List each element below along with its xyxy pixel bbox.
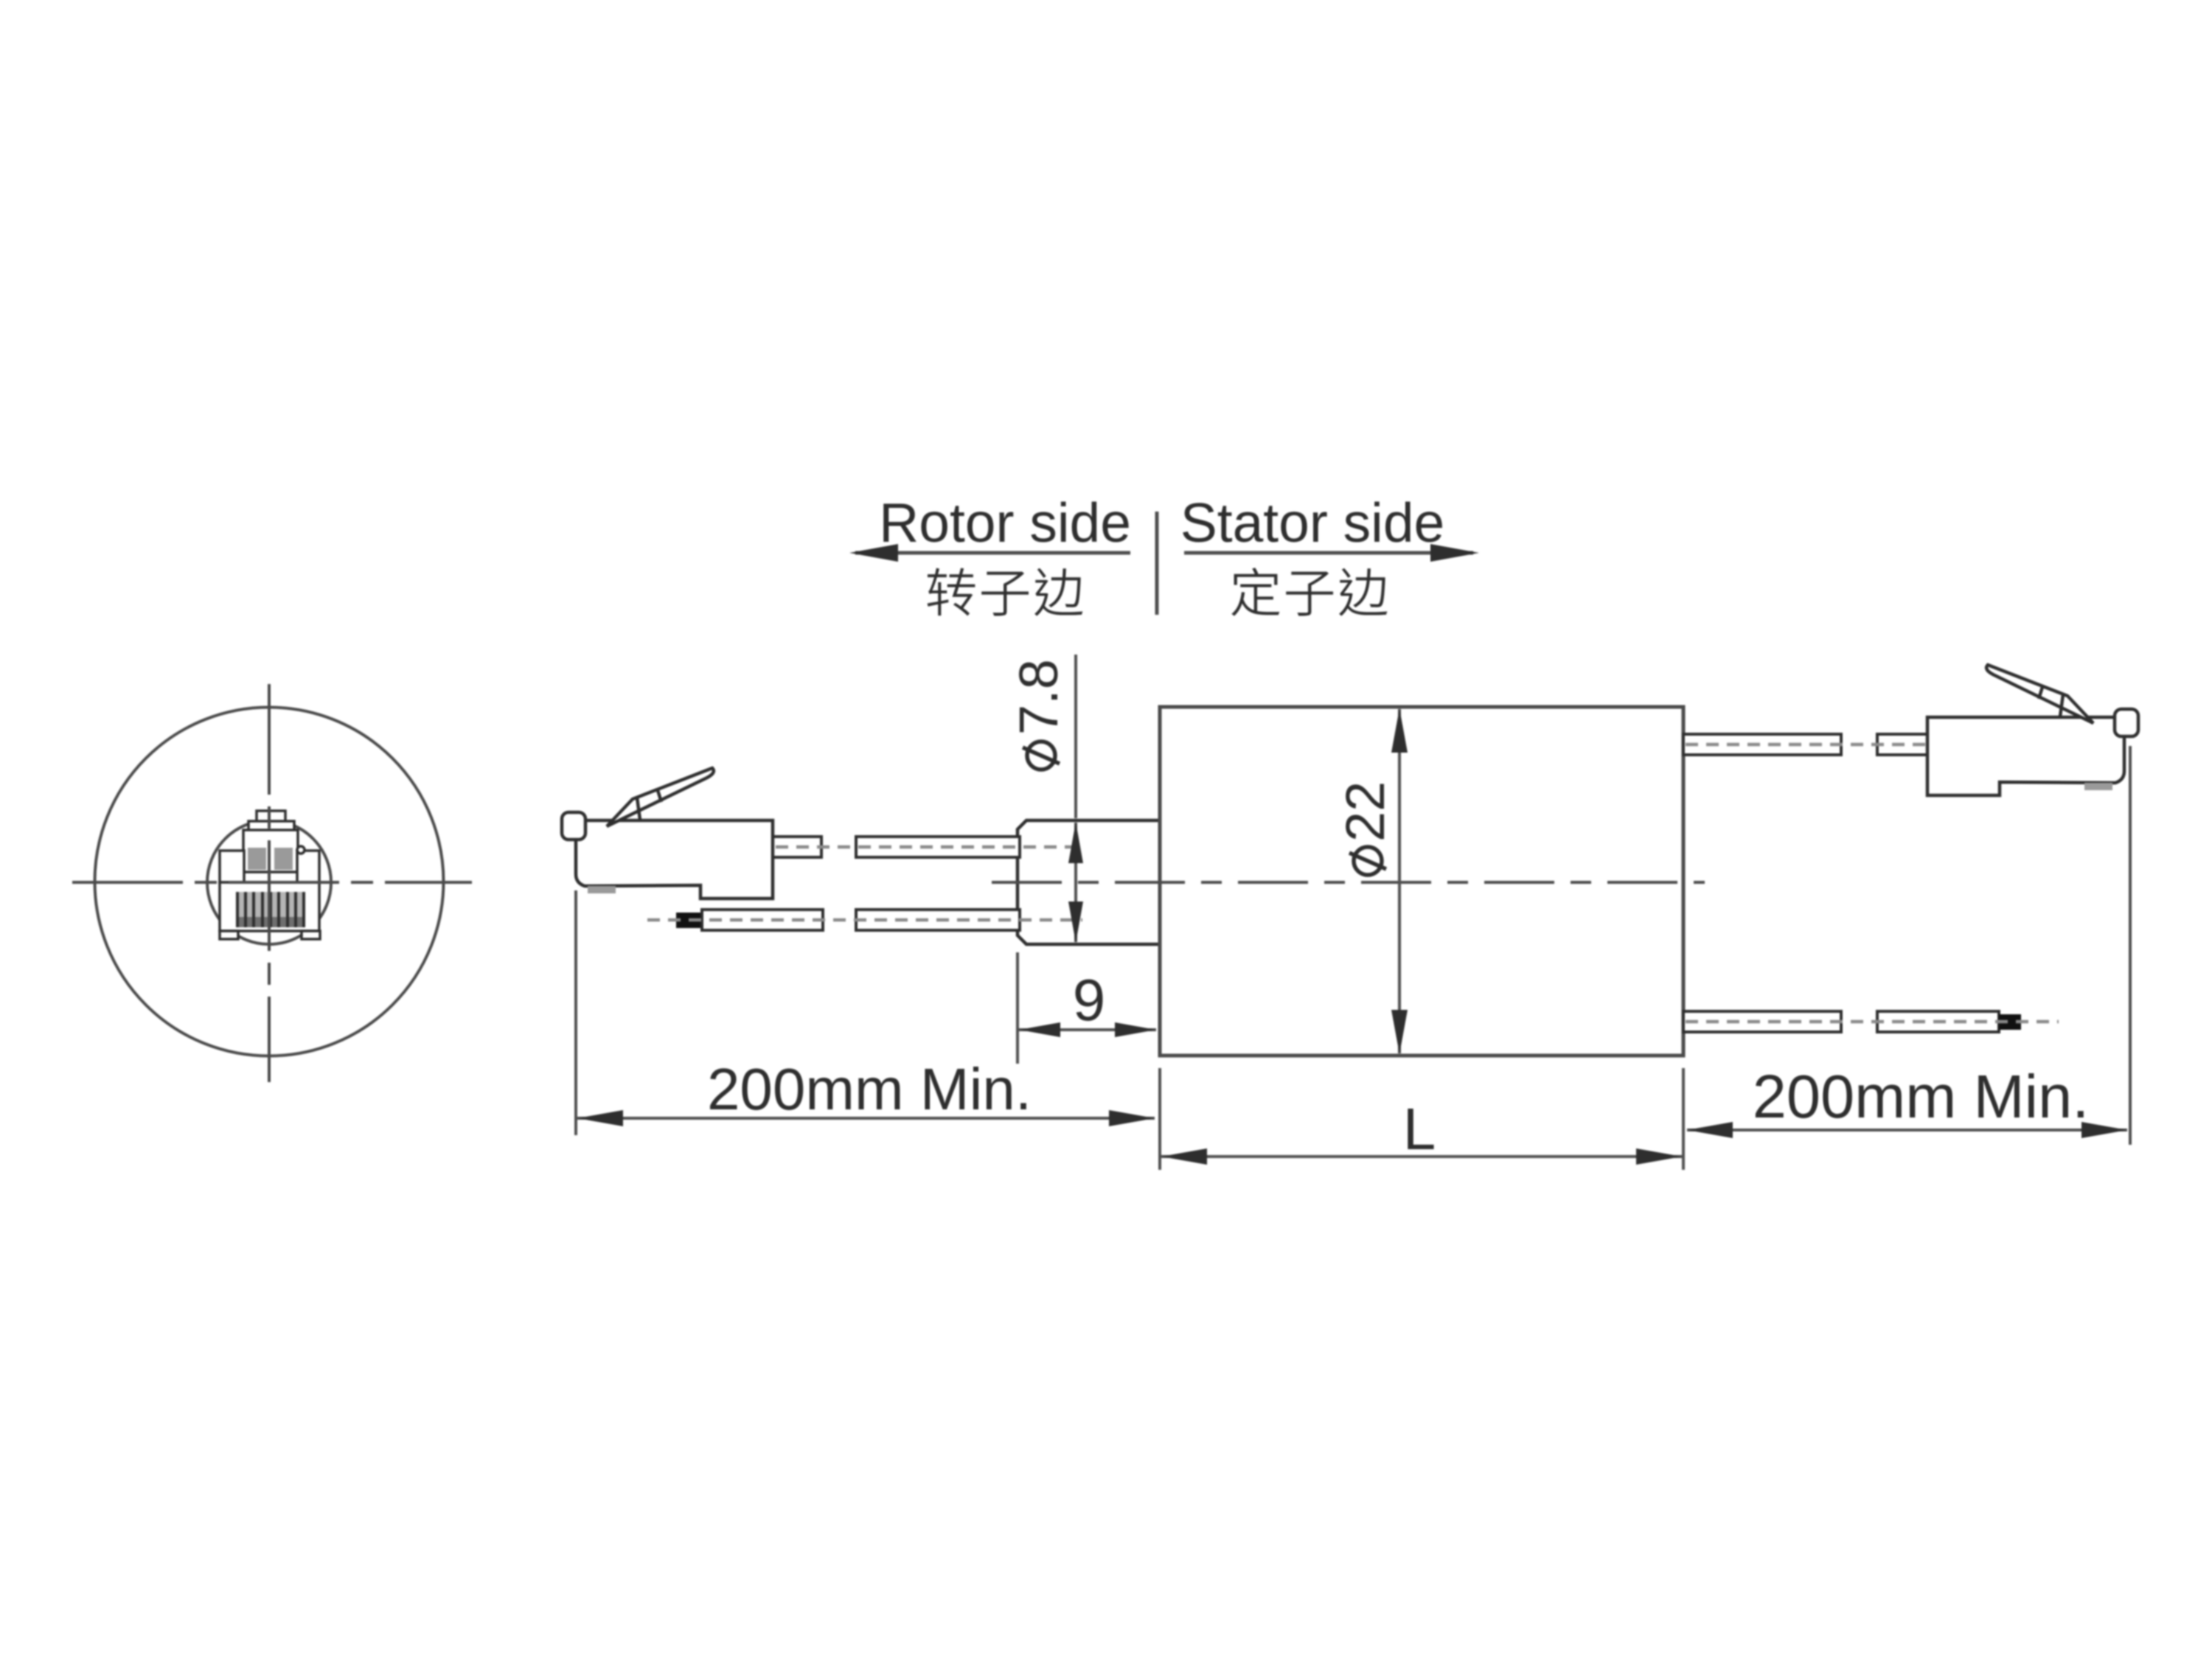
dim 200mm Min. (right): extension line (2129, 746, 2132, 1145)
end view: RJ45 jack front symbol (220, 811, 320, 939)
dim 9: extension line (1016, 952, 1019, 1064)
right lower wire: segment from body (1683, 1011, 1841, 1032)
right wire dashed centerlines (1686, 743, 1930, 747)
dim text phi22 (rotated) (1335, 781, 1396, 875)
left RJ45 connector (562, 768, 773, 899)
end view: vertical centerline (268, 684, 271, 1082)
connector front tab (562, 812, 585, 840)
divider line between rotor/stator labels (1155, 512, 1159, 615)
connector contact bar (gray) (588, 886, 616, 893)
right upper wire: stub to connector (1877, 734, 1927, 755)
svg-text:22: 22 (1335, 781, 1396, 842)
label: zhuan zi bian (rotor side chinese) (928, 568, 975, 616)
dim 200mm Min. (left): extension line (574, 890, 577, 1135)
connector body (576, 820, 773, 899)
connector latch blade (607, 768, 714, 826)
label: ding zi bian (stator side chinese) (1231, 568, 1279, 615)
svg-text:200mm Min.: 200mm Min. (1753, 1062, 2090, 1131)
connector contact bar (gray) (2084, 783, 2112, 790)
svg-text:L: L (1403, 1096, 1436, 1162)
stator direction arrow line (1184, 551, 1473, 555)
dim L: extension lines (1158, 1068, 1161, 1170)
side view: shaft block (phi7.8 x 9) (1018, 820, 1160, 944)
side view: main axis centerline (992, 881, 1705, 884)
left lower wire: black tip (676, 913, 703, 928)
svg-text:9: 9 (1073, 967, 1106, 1033)
end view: horizontal centerline (72, 881, 472, 884)
right upper wire: segment from body (1683, 734, 1841, 755)
connector front tab (2115, 709, 2138, 736)
dim phi22: arrow line (1398, 709, 1401, 1053)
right lower wire: segment with black tip (1877, 1011, 1999, 1032)
dim 200mm Min. (left): arrow line (577, 1117, 1155, 1120)
left lower wire: segment with tip (702, 910, 823, 930)
connector body (1927, 717, 2124, 795)
dim text phi7.8 (rotated) (1008, 659, 1069, 770)
rotor direction arrow line (855, 551, 1130, 555)
left wire dashed centerlines (776, 845, 1082, 849)
dim phi7.8: extension line (1074, 655, 1077, 818)
connector latch blade (1986, 665, 2093, 723)
left lower wire: long segment to shaft (856, 910, 1020, 930)
end view: inner circle (phi7.8 shaft) (207, 820, 331, 944)
end view: outer circle (phi22 body) (95, 708, 444, 1056)
side view: body cylinder (phi22 x L) (1160, 707, 1683, 1056)
svg-text:7.8: 7.8 (1008, 659, 1069, 735)
svg-text:Stator side: Stator side (1180, 492, 1445, 554)
right RJ45 connector (mirrored) (1927, 665, 2138, 795)
dim 9: arrow line (1019, 1028, 1156, 1031)
dim L: arrow line (1161, 1155, 1682, 1158)
left upper wire: stub from connector (773, 837, 821, 857)
svg-text:200mm Min.: 200mm Min. (707, 1056, 1032, 1122)
svg-text:Rotor side: Rotor side (879, 492, 1131, 554)
dim 200mm Min. (right): arrow line (1687, 1129, 2127, 1131)
left upper wire: long segment to shaft (856, 837, 1020, 857)
dim phi7.8: arrow line (1074, 823, 1077, 942)
